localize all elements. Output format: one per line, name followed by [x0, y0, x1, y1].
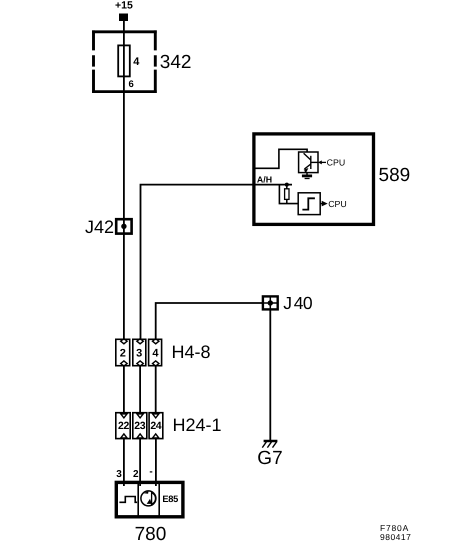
svg-text:780: 780 [135, 524, 167, 544]
svg-text:2: 2 [133, 469, 139, 480]
splice J42 junction dot [121, 224, 126, 229]
+15 terminal square [119, 14, 128, 22]
wire H24-1 pin23 to 780 pin 2 [139, 439, 141, 486]
splice J42 box [116, 219, 131, 233]
svg-text:J: J [283, 293, 292, 313]
H24-1 pin triangles [121, 414, 159, 438]
transistor Q1 symbol [304, 153, 318, 172]
svg-text:23: 23 [134, 420, 145, 432]
svg-text:980417: 980417 [380, 532, 411, 542]
svg-text:J42: J42 [85, 217, 114, 237]
connector H4-8 [116, 339, 162, 365]
connector H24-1 [116, 413, 163, 439]
wire upper branch to transistor collector [253, 149, 307, 168]
gauge symbol [141, 491, 156, 506]
tachometer box 780 [116, 482, 183, 516]
fuse F4 element [118, 45, 130, 76]
transistor box U1 [299, 152, 318, 173]
splice J40 junction dot [268, 300, 273, 305]
wire J40 to ground G7 [269, 310, 271, 440]
step symbol [302, 198, 315, 209]
svg-text:H24-1: H24-1 [173, 415, 222, 435]
svg-text:6: 6 [129, 79, 134, 90]
svg-text:4: 4 [133, 56, 140, 68]
svg-text:3: 3 [136, 347, 142, 359]
resistor in ECU [286, 185, 288, 189]
svg-text:342: 342 [160, 52, 192, 73]
ECU box 589 [254, 134, 374, 225]
svg-text:22: 22 [118, 420, 129, 432]
ground G7 symbol [264, 440, 278, 443]
wire H24-1 pin24 to 780 pin - [155, 439, 157, 486]
svg-text:CPU: CPU [327, 157, 346, 167]
fuse holder box 342 dashed border [92, 30, 157, 93]
svg-text:E85: E85 [162, 494, 178, 504]
pulse signal symbol [119, 497, 137, 503]
svg-text:40: 40 [294, 293, 313, 313]
svg-text:589: 589 [379, 165, 411, 186]
splice J40 box [263, 296, 278, 309]
CPU input arrow upper [321, 161, 326, 163]
wire H4-8 pin2 to H24-1 pin22 [123, 367, 125, 413]
wire H24-1 pin22 to 780 pin 3 [123, 439, 125, 486]
junction dot on A/H line [285, 183, 289, 187]
wire +15 down through fuse box 342 and splice J42 to connector H4-8 pin 2 [123, 20, 125, 339]
svg-text:3: 3 [116, 469, 122, 480]
svg-text:CPU: CPU [328, 199, 347, 209]
780 internal dividers [137, 482, 139, 517]
svg-text:-: - [149, 467, 152, 478]
schmitt trigger box [298, 193, 320, 215]
svg-text:H4-8: H4-8 [172, 342, 211, 362]
H4-8 pin diamonds top [121, 339, 159, 367]
wire J40 to connector H4-8 pin 4 [156, 303, 262, 339]
wire lower branch to schmitt trigger [279, 185, 298, 204]
wire H4-8 pin4 to H24-1 pin24 [155, 367, 157, 413]
svg-text:24: 24 [150, 420, 161, 432]
wire A/H from ECU to connector H4-8 pin 3 [141, 185, 293, 339]
wire H4-8 pin3 to H24-1 pin23 [139, 367, 141, 413]
ground under transistor [306, 173, 308, 175]
svg-text:+15: +15 [115, 0, 133, 12]
CPU output arrow lower [320, 203, 322, 205]
svg-text:A/H: A/H [257, 174, 272, 184]
svg-text:G7: G7 [257, 448, 282, 469]
svg-text:2: 2 [120, 347, 126, 359]
svg-text:4: 4 [152, 347, 159, 359]
